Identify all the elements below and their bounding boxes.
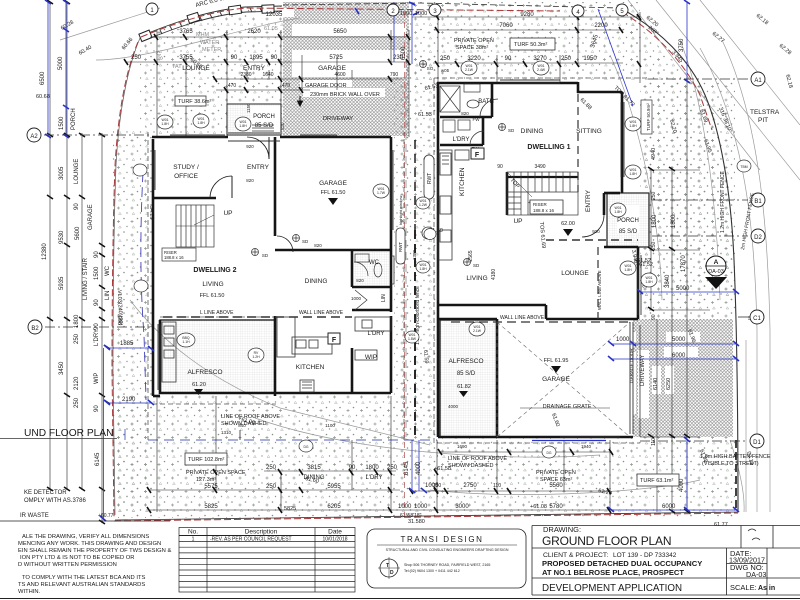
blue dashed easement line [141,172,146,400]
svg-text:1885: 1885 [120,341,134,347]
dwelling2 WC tile floor [354,252,389,285]
svg-text:LOUNGE: LOUNGE [561,270,589,277]
svg-text:90: 90 [94,405,100,412]
svg-text:ION PTY LTD & IS NOT TO BE COP: ION PTY LTD & IS NOT TO BE COPIED OR [20,555,134,561]
svg-text:820: 820 [314,243,322,248]
section marker A/DA-03 [705,265,716,267]
dwelling2 entry door [247,137,269,159]
svg-text:61.20: 61.20 [192,382,206,388]
svg-text:KITCHEN: KITCHEN [459,167,466,196]
svg-text:5000: 5000 [58,56,64,70]
svg-text:5575: 5575 [204,484,218,490]
svg-text:PORCH: PORCH [253,114,275,120]
svg-text:5600: 5600 [75,226,81,240]
svg-text:5935: 5935 [59,276,65,290]
svg-text:Date: Date [328,529,342,536]
svg-text:12380: 12380 [42,243,48,260]
driveway dwelling2 (top) [283,2,409,136]
svg-text:6145: 6145 [404,461,410,475]
svg-text:LIVING: LIVING [466,275,487,282]
batten fence bottom right [639,325,641,437]
dwelling1 lounge dashes [546,239,638,241]
svg-text:3765: 3765 [179,29,193,35]
svg-text:ENTRY: ENTRY [585,189,592,212]
svg-text:62.18: 62.18 [784,74,793,89]
svg-text:TURF 50.9m²: TURF 50.9m² [646,103,651,131]
svg-text:1940: 1940 [581,444,592,449]
svg-text:6000: 6000 [662,504,676,510]
svg-text:2200: 2200 [594,23,608,29]
svg-text:1895: 1895 [249,55,263,61]
svg-text:KE DETECTOR: KE DETECTOR [24,490,67,496]
svg-text:DA-03: DA-03 [746,570,766,579]
svg-text:UND FLOOR PLAN: UND FLOOR PLAN [24,428,113,439]
svg-text:2.1W: 2.1W [465,68,474,72]
right side verticals [650,168,652,310]
svg-text:1800: 1800 [74,314,80,328]
svg-text:AT NO.1 BELROSE PLACE, PROSPEC: AT NO.1 BELROSE PLACE, PROSPECT [542,568,684,577]
dwelling2 alfresco bbq [162,322,176,382]
svg-text:1.7W: 1.7W [377,191,386,195]
svg-text:BATH: BATH [478,99,494,105]
svg-text:RISER: RISER [533,202,548,207]
svg-text:10/01/2018: 10/01/2018 [322,537,347,543]
svg-text:SHOWN DASHED: SHOWN DASHED [448,463,494,469]
svg-text:5560: 5560 [549,483,563,489]
svg-text:TURF 38.6m²: TURF 38.6m² [178,99,211,105]
svg-text:1800: 1800 [671,214,677,228]
svg-text:2.4W: 2.4W [537,68,546,72]
svg-text:6205: 6205 [327,504,341,510]
svg-text:61.53: 61.53 [418,112,432,118]
dwelling2 stair [176,205,214,247]
svg-text:PRIVATE OPEN: PRIVATE OPEN [454,38,494,44]
svg-text:1.8m HIGH BATTEN FENCE: 1.8m HIGH BATTEN FENCE [700,454,771,460]
svg-text:1100: 1100 [325,423,335,428]
svg-text:METER: METER [202,47,221,53]
alfresco dwelling1 [440,320,497,437]
svg-text:250: 250 [387,465,398,471]
svg-text:61.05: 61.05 [264,26,278,32]
extension verticals above left bldg [157,30,409,137]
svg-text:2380: 2380 [240,72,251,78]
svg-text:62.18: 62.18 [755,13,769,26]
svg-text:KITCHEN: KITCHEN [296,364,325,371]
svg-text:FFL 61.95: FFL 61.95 [544,358,569,364]
stipple top-left between boundary arc and dwelling2 [140,6,283,136]
svg-text:1.8H: 1.8H [645,280,653,284]
svg-text:61.77: 61.77 [714,522,728,528]
colorbond fence dashed thick between lots [414,230,416,437]
svg-text:1.2W: 1.2W [419,203,428,207]
svg-text:RWT: RWT [398,242,403,252]
svg-text:250: 250 [131,55,142,61]
svg-text:+60.77: +60.77 [98,513,114,519]
svg-text:UP: UP [223,210,232,217]
svg-text:DWELLING 2: DWELLING 2 [193,267,236,274]
svg-text:LIN: LIN [381,294,387,302]
svg-text:LOUNGE: LOUNGE [182,65,210,72]
svg-text:Description: Description [245,529,278,536]
dwelling1 stair [507,172,578,215]
RWT strip d2 [396,228,405,264]
svg-text:6000: 6000 [672,353,686,359]
svg-text:1950: 1950 [583,56,597,62]
svg-text:WC: WC [105,265,111,276]
svg-text:TBM: TBM [740,165,747,169]
svg-text:WALL LINE ABOVE: WALL LINE ABOVE [299,310,344,316]
svg-text:820: 820 [246,178,254,183]
svg-text:D: D [390,570,394,576]
svg-text:3005: 3005 [59,166,65,180]
dwelling1 entry door [582,215,604,237]
svg-text:4000: 4000 [416,461,422,475]
svg-text:60.28: 60.28 [60,20,75,32]
svg-text:920: 920 [246,144,254,149]
svg-text:CLIENT & PROJECT:: CLIENT & PROJECT: [543,552,608,559]
svg-text:5955: 5955 [327,484,341,490]
svg-text:90: 90 [94,323,100,330]
svg-text:STRUCTURAL AND CIVIL CONSUL: STRUCTURAL AND CIVIL CONSULTING ENGINEER… [386,548,509,552]
small dims around entry d2 [247,70,352,79]
svg-text:4940: 4940 [651,148,657,160]
svg-text:840: 840 [238,423,246,428]
svg-text:+61.08: +61.08 [530,504,547,510]
svg-text:GARAGE: GARAGE [542,376,570,383]
svg-text:C1: C1 [753,316,761,322]
svg-text:1000: 1000 [414,504,428,510]
svg-text:250: 250 [433,483,442,489]
svg-text:Tel:(02) 9604 1300 + 0411 4: Tel:(02) 9604 1300 + 0411 442 612 [404,569,460,573]
svg-text:1: 1 [192,537,195,543]
svg-text:1380: 1380 [412,249,417,260]
svg-text:D WITHOUT WRITTEN PERMISSION: D WITHOUT WRITTEN PERMISSION [18,562,117,568]
svg-text:WC: WC [369,260,380,266]
dwelling1 garage diagonals [497,322,630,437]
stipple middle strip between buildings [394,55,438,437]
svg-text:110: 110 [493,483,501,489]
svg-text:WIP: WIP [94,373,100,384]
svg-text:4600: 4600 [334,72,345,78]
svg-text:DEVELOPMENT APPLICATION: DEVELOPMENT APPLICATION [542,583,682,594]
svg-text:ENTRY: ENTRY [247,164,270,171]
svg-text:1.8H: 1.8H [419,267,427,271]
svg-text:SPACE 38m²: SPACE 38m² [456,45,488,51]
svg-text:SITTING: SITTING [576,128,602,135]
svg-text:WALL LINE ABOVE: WALL LINE ABOVE [597,270,602,310]
roof dashed [434,78,648,443]
svg-text:61.82: 61.82 [457,384,471,390]
svg-text:highlight window: highlight window [398,196,403,225]
svg-text:31.580: 31.580 [408,519,425,525]
svg-text:SO: SO [427,66,434,71]
dwelling1 windows [438,80,641,437]
svg-text:DRIVEWAY: DRIVEWAY [323,116,353,122]
svg-text:L'DRY: L'DRY [452,137,469,143]
stipple top-right wedge [620,8,735,300]
svg-text:GARAGE: GARAGE [88,204,94,230]
svg-text:5725: 5725 [329,55,343,61]
svg-text:DRIVEWAY: DRIVEWAY [640,355,646,386]
dim texts black [42,12,731,510]
svg-text:5825: 5825 [204,504,218,510]
svg-text:3750: 3750 [679,38,685,52]
svg-text:1150: 1150 [246,103,251,113]
svg-text:830: 830 [280,122,285,130]
svg-text:1800: 1800 [652,214,658,228]
svg-text:A: A [714,259,719,266]
dwelling2 porch steps [252,125,274,131]
svg-text:1000: 1000 [616,337,630,343]
svg-text:920: 920 [592,229,600,234]
stipple far right beyond kerb [735,200,790,512]
left verticals [49,2,51,490]
svg-text:12035: 12035 [266,12,283,18]
svg-text:1500: 1500 [94,266,100,280]
svg-text:90: 90 [231,55,238,61]
svg-text:250: 250 [561,56,572,62]
top horizontals right bldg [412,16,640,18]
F symbols [471,148,484,159]
svg-text:FFL 61.50: FFL 61.50 [321,190,346,196]
svg-text:LIN: LIN [105,291,111,300]
study door arc [210,176,232,198]
right site boundary [622,9,738,512]
svg-text:PORCH: PORCH [71,108,77,130]
svg-text:1.8H: 1.8H [614,210,622,214]
svg-text:60.40: 60.40 [78,45,93,57]
svg-text:1.8H: 1.8H [629,172,637,176]
svg-text:EIN SHALL REMAIN THE PROPERTY: EIN SHALL REMAIN THE PROPERTY OF TWS DES… [18,548,171,554]
svg-text:17870: 17870 [681,255,687,272]
svg-text:B1: B1 [754,199,762,205]
SD symbols [252,61,506,266]
svg-text:90: 90 [651,314,657,320]
svg-text:250: 250 [440,56,451,62]
dwelling1 outer walls [437,82,638,437]
svg-text:2750: 2750 [463,483,477,489]
svg-text:6145: 6145 [95,452,101,466]
svg-text:5000: 5000 [676,286,690,292]
svg-text:61.59: 61.59 [422,350,429,364]
svg-text:85 S/D: 85 S/D [619,229,638,235]
svg-text:2565: 2565 [468,250,474,261]
left site boundary [113,38,140,515]
svg-text:90: 90 [497,164,503,170]
disclaimer text [18,534,171,595]
svg-text:SD: SD [473,263,480,268]
svg-text:TURF 50.3m²: TURF 50.3m² [514,42,547,48]
svg-text:DRAINAGE GRATE: DRAINAGE GRATE [543,404,592,410]
svg-text:L LINE ABOVE: L LINE ABOVE [200,310,234,316]
svg-text:DRAWING:: DRAWING: [543,525,581,534]
top site boundary dashed (right part) [283,3,620,8]
RWT oval d1 [424,155,434,199]
svg-text:FW: FW [473,117,481,122]
svg-text:DINING: DINING [521,128,544,135]
svg-text:3450: 3450 [59,361,65,375]
svg-text:ALFRESCO: ALFRESCO [187,369,222,376]
svg-text:1.8H: 1.8H [197,121,205,125]
svg-text:4000: 4000 [448,404,459,409]
svg-text:F: F [475,152,480,159]
svg-text:5650: 5650 [333,29,347,35]
svg-text:4000: 4000 [679,478,685,492]
svg-text:LIVING / STAIR: LIVING / STAIR [83,257,89,300]
svg-text:OMPLY WITH AS.3786: OMPLY WITH AS.3786 [24,498,86,504]
white label masks over hatch [256,8,700,508]
svg-text:WIP: WIP [365,354,377,361]
svg-text:790: 790 [390,72,399,78]
svg-text:85 S/D: 85 S/D [255,123,274,129]
svg-text:188.8 x 16: 188.8 x 16 [533,208,555,213]
svg-text:SCALE:: SCALE: [730,583,757,592]
svg-text:WALL LINE ABOVE: WALL LINE ABOVE [500,315,545,321]
driveway dwelling1 (bottom right) [633,319,733,437]
svg-text:TRANSI DESIGN: TRANSI DESIGN [400,535,483,544]
svg-text:GARAGE DOOR: GARAGE DOOR [305,83,347,89]
svg-text:250: 250 [266,484,277,490]
dimension tick marks [47,0,690,524]
svg-text:D1: D1 [753,440,761,446]
svg-text:90: 90 [271,55,278,61]
dwelling2 windows thin [153,133,393,390]
svg-text:TO COMPLY WITH THE LATEST BCA: TO COMPLY WITH THE LATEST BCA AND ITS [22,575,146,581]
svg-text:B2: B2 [31,326,39,332]
svg-text:GARAGE: GARAGE [318,65,346,72]
retaining wall band top-left [141,6,282,41]
svg-text:1000: 1000 [400,11,412,17]
svg-text:DG: DG [303,445,308,449]
svg-text:1.2m HIGH FRONT FENCE: 1.2m HIGH FRONT FENCE [720,170,726,233]
dwelling2 kitchen [277,317,391,392]
svg-text:1800: 1800 [365,465,379,471]
svg-text:PRIVATE OPEN: PRIVATE OPEN [536,470,576,476]
top horizontals left bldg [150,36,409,38]
svg-text:1.8W: 1.8W [408,337,417,341]
svg-text:90: 90 [349,465,356,471]
svg-text:4180: 4180 [491,269,497,280]
svg-text:1310: 1310 [221,430,232,435]
svg-text:LOUNGE: LOUNGE [74,159,80,184]
stipple right strip [641,80,735,320]
area boxes [641,100,652,134]
svg-text:PIT: PIT [758,117,768,124]
svg-text:250: 250 [74,333,80,344]
svg-text:6250: 6250 [666,378,672,390]
svg-text:ARC 6.0 W: ARC 6.0 W [195,0,226,9]
alfresco dwelling2 [160,320,275,393]
svg-text:5780: 5780 [549,504,563,510]
svg-text:SD: SD [508,128,515,133]
bottom site boundary [115,512,738,520]
bottom horizontals [264,470,396,472]
svg-text:3000: 3000 [455,504,469,510]
svg-text:STUDY /: STUDY / [173,164,199,171]
svg-text:90: 90 [94,299,100,306]
svg-text:GARAGE DOOR: GARAGE DOOR [629,348,634,383]
svg-text:470: 470 [228,83,237,89]
svg-text:61.60: 61.60 [550,413,560,428]
dwelling1 bath fixtures [440,84,498,145]
stipple left strip outside dwelling2 [113,130,153,518]
svg-text:820: 820 [356,278,364,283]
svg-text:1.8H: 1.8H [239,124,247,128]
svg-text:2120: 2120 [74,376,80,390]
svg-text:TAT: TAT [172,64,182,70]
svg-text:110: 110 [651,438,657,446]
svg-text:820: 820 [461,111,469,116]
svg-text:LINE OF ROOF ABOVE: LINE OF ROOF ABOVE [221,414,280,420]
svg-text:SD: SD [262,253,269,258]
red dashed property line [112,8,738,521]
svg-text:9530: 9530 [59,230,65,244]
svg-text:85 S/D: 85 S/D [457,371,476,377]
dwelling1 kitchen bench [438,150,469,260]
svg-text:60.66: 60.66 [121,37,134,51]
svg-text:250: 250 [651,241,657,250]
svg-text:90: 90 [505,56,512,62]
svg-text:F: F [332,337,337,344]
svg-text:No.: No. [188,529,198,536]
svg-text:1690: 1690 [457,444,468,449]
svg-text:DINING: DINING [305,278,328,285]
svg-text:1000: 1000 [398,504,412,510]
svg-text:Shop 506 THORNEY ROAD, FAIRF: Shop 506 THORNEY ROAD, FAIRFIELD WEST, 2… [404,563,490,567]
svg-text:TS AND RELEVANT AUSTRALIAN STA: TS AND RELEVANT AUSTRALIAN STANDARDS [18,582,145,588]
svg-text:1000: 1000 [415,11,427,17]
svg-text:PRIVATE OPEN SPACE: PRIVATE OPEN SPACE [186,470,246,476]
svg-text:3755: 3755 [179,55,193,61]
svg-text:250: 250 [74,397,80,408]
dwelling2 WC fixtures [354,254,394,310]
stipple bottom band right [437,437,737,517]
svg-text:IR WASTE: IR WASTE [20,513,49,519]
window tag ovals [133,61,751,458]
svg-text:5825: 5825 [284,506,296,512]
svg-text:D2: D2 [754,235,762,241]
svg-text:1.8H: 1.8H [629,124,637,128]
svg-text:250: 250 [651,191,657,200]
svg-text:LOT 139 - DP 733342: LOT 139 - DP 733342 [613,552,677,559]
svg-text:DA-03: DA-03 [708,269,724,275]
svg-text:1.8H: 1.8H [161,122,169,126]
svg-text:7060: 7060 [499,23,513,29]
svg-text:3490: 3490 [534,164,545,170]
svg-text:2620: 2620 [247,29,261,35]
street kerb lines right [60,0,800,512]
roof line dashed around dwelling2 [148,132,404,440]
svg-text:OFFICE: OFFICE [174,173,198,180]
stipple bottom band left [113,395,438,518]
svg-text:LINE OF ROOF ABOVE: LINE OF ROOF ABOVE [448,456,507,462]
svg-text:PROPOSED DETACHED DUAL OCCUPAN: PROPOSED DETACHED DUAL OCCUPANCY [542,559,702,568]
small notes [0,83,771,519]
svg-text:1500: 1500 [59,116,65,130]
svg-text:188.8 x 16: 188.8 x 16 [164,255,184,260]
dwelling2 garage internal door [277,236,293,252]
svg-text:TURF 63.1m²: TURF 63.1m² [640,478,673,484]
svg-text:TELSTRA: TELSTRA [750,109,780,116]
svg-text:w01: w01 [441,68,450,73]
retaining wall piers [139,5,274,42]
svg-text:DINING: DINING [304,475,325,481]
svg-text:62.28: 62.28 [778,43,792,56]
svg-text:1.8H: 1.8H [624,268,632,272]
svg-text:90: 90 [74,203,80,210]
svg-text:3840: 3840 [665,274,671,288]
svg-text:62.00: 62.00 [561,221,575,227]
